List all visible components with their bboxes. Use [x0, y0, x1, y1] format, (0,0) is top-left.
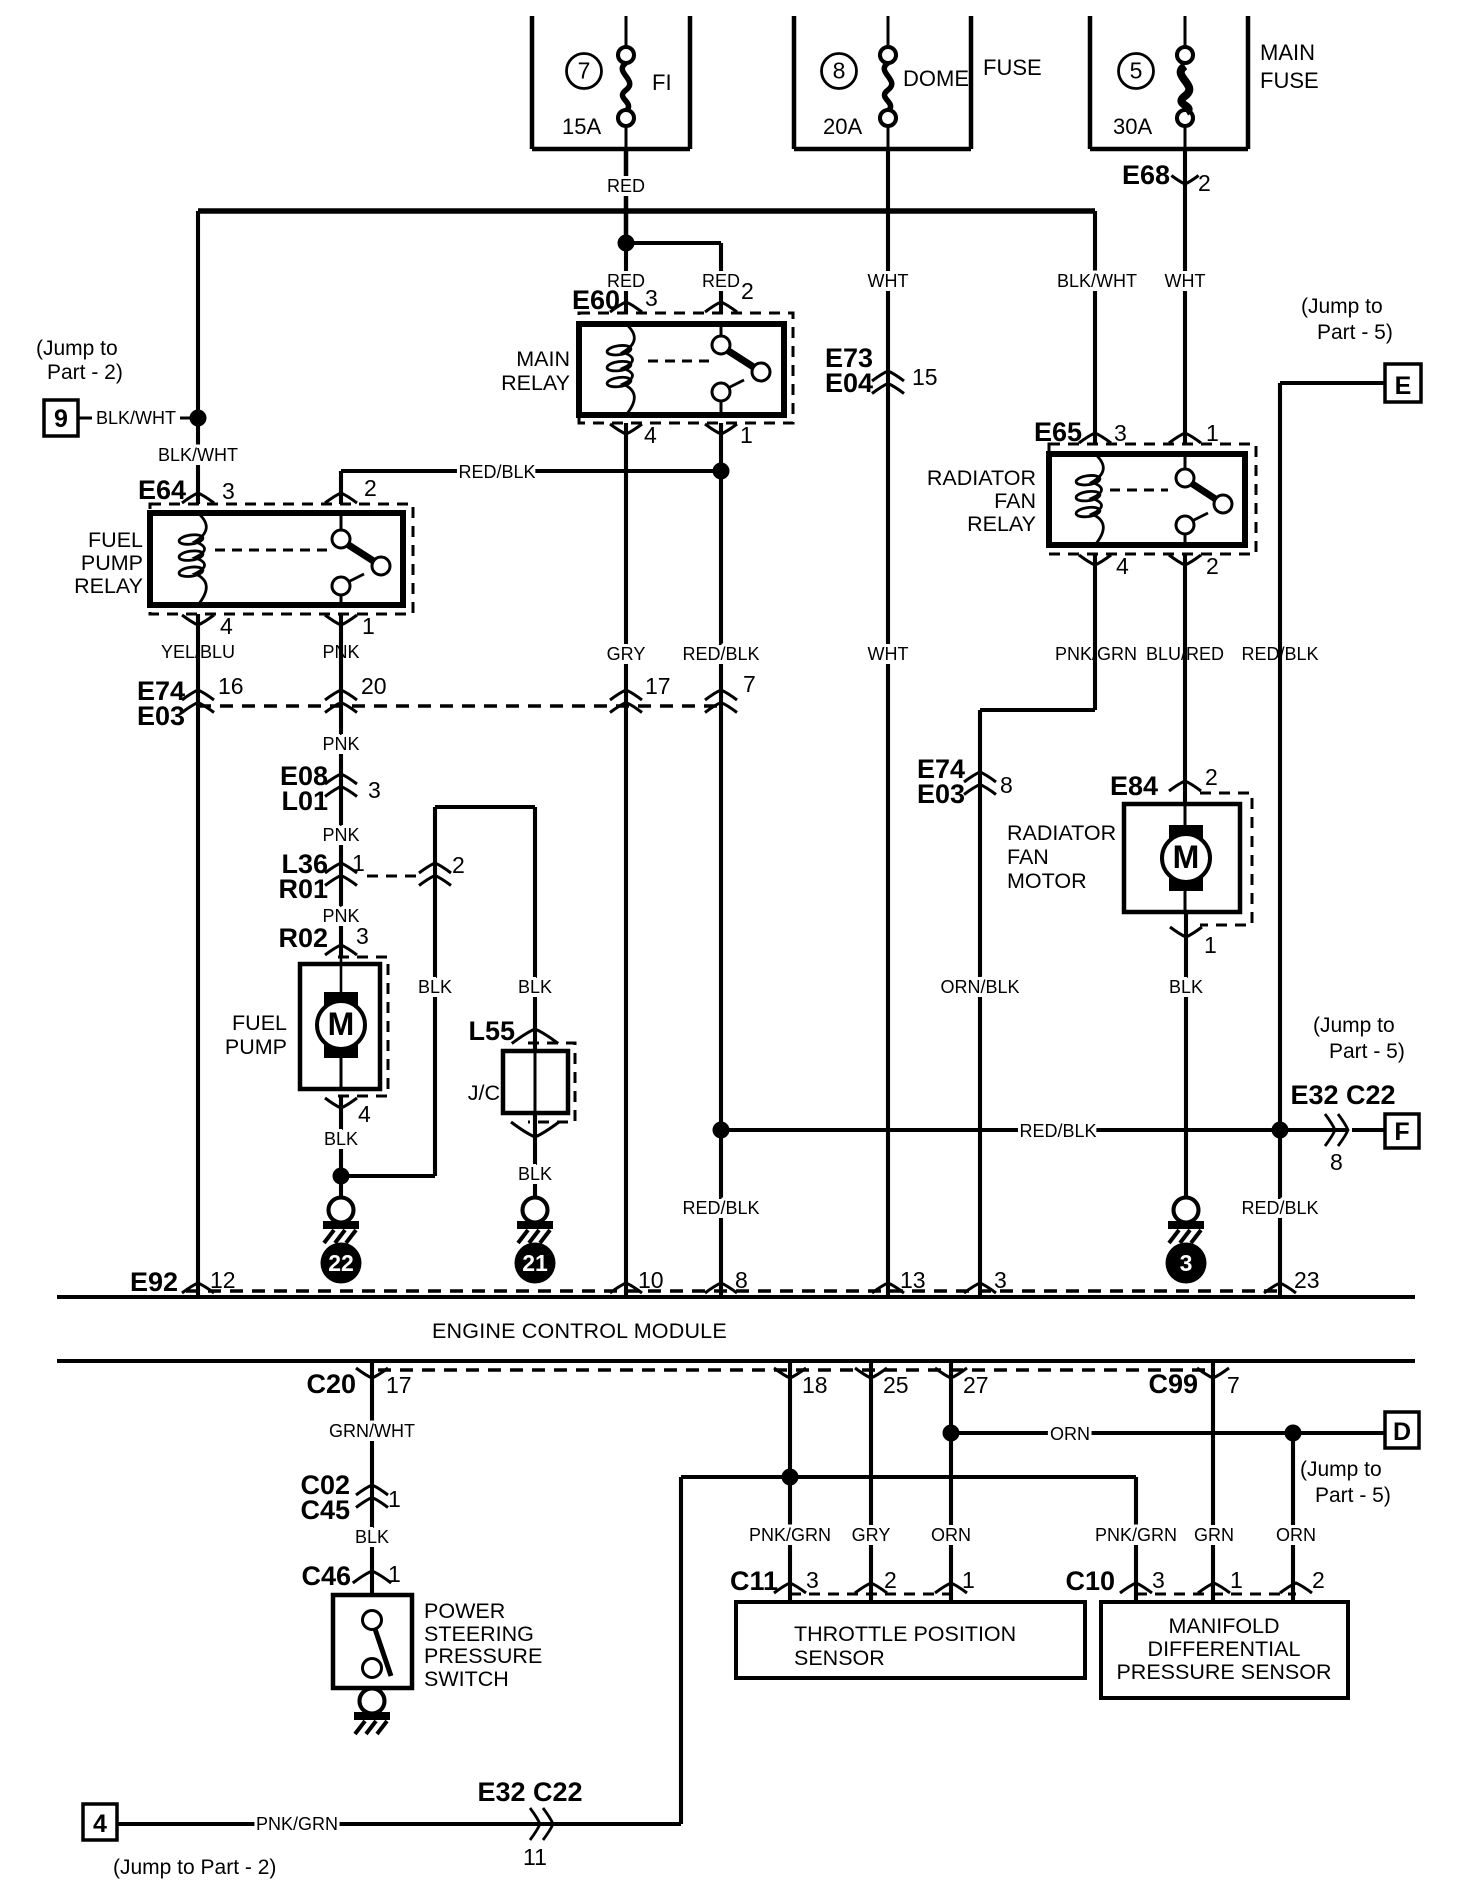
- svg-text:ENGINE CONTROL MODULE: ENGINE CONTROL MODULE: [432, 1319, 727, 1343]
- svg-text:L55: L55: [468, 1016, 515, 1046]
- svg-text:8: 8: [1330, 1149, 1343, 1175]
- svg-text:3: 3: [1114, 420, 1127, 446]
- svg-text:8: 8: [833, 58, 846, 84]
- svg-text:MAIN: MAIN: [516, 347, 570, 371]
- svg-text:POWER: POWER: [424, 1599, 505, 1623]
- svg-text:1: 1: [388, 1561, 401, 1587]
- svg-text:R01: R01: [278, 874, 328, 904]
- svg-text:C20: C20: [306, 1369, 356, 1399]
- svg-text:BLK/WHT: BLK/WHT: [96, 408, 176, 428]
- svg-text:D: D: [1393, 1418, 1411, 1446]
- svg-text:FI: FI: [652, 70, 672, 95]
- svg-text:MANIFOLD: MANIFOLD: [1168, 1614, 1279, 1638]
- svg-text:BLK: BLK: [418, 977, 452, 997]
- svg-text:11: 11: [523, 1844, 547, 1870]
- svg-text:1: 1: [362, 613, 375, 639]
- svg-text:2: 2: [364, 475, 377, 501]
- svg-text:13: 13: [900, 1267, 926, 1293]
- svg-text:12: 12: [210, 1267, 236, 1293]
- svg-text:MOTOR: MOTOR: [1007, 869, 1087, 893]
- svg-text:GRY: GRY: [852, 1525, 891, 1545]
- svg-text:FUEL: FUEL: [232, 1011, 287, 1035]
- svg-text:10: 10: [638, 1267, 664, 1293]
- svg-text:RED: RED: [607, 176, 645, 196]
- svg-text:18: 18: [802, 1372, 828, 1398]
- svg-text:9: 9: [54, 405, 68, 433]
- svg-text:2: 2: [884, 1567, 897, 1593]
- svg-text:1: 1: [1230, 1567, 1243, 1593]
- svg-text:RELAY: RELAY: [74, 574, 143, 598]
- svg-text:GRN: GRN: [1194, 1525, 1234, 1545]
- svg-text:ORN/BLK: ORN/BLK: [940, 977, 1019, 997]
- svg-text:E92: E92: [130, 1267, 178, 1297]
- svg-text:FUSE: FUSE: [1260, 68, 1319, 93]
- svg-text:RED/BLK: RED/BLK: [1241, 1198, 1318, 1218]
- svg-text:(Jump to: (Jump to: [36, 337, 118, 360]
- svg-text:E32 C22: E32 C22: [1290, 1080, 1395, 1110]
- svg-text:3: 3: [356, 923, 369, 949]
- svg-text:E65: E65: [1034, 417, 1082, 447]
- svg-text:RED/BLK: RED/BLK: [458, 462, 535, 482]
- svg-text:ORN: ORN: [931, 1525, 971, 1545]
- svg-text:MAIN: MAIN: [1260, 40, 1315, 65]
- svg-text:BLK/WHT: BLK/WHT: [158, 445, 238, 465]
- svg-text:1: 1: [1206, 420, 1219, 446]
- svg-text:BLK: BLK: [518, 1164, 552, 1184]
- svg-text:5: 5: [1130, 58, 1143, 84]
- svg-text:PRESSURE SENSOR: PRESSURE SENSOR: [1116, 1660, 1331, 1684]
- svg-text:L01: L01: [281, 786, 328, 816]
- svg-text:BLK/WHT: BLK/WHT: [1057, 271, 1137, 291]
- svg-text:1: 1: [962, 1567, 975, 1593]
- svg-text:15A: 15A: [562, 114, 601, 139]
- svg-text:BLK: BLK: [355, 1527, 389, 1547]
- svg-text:3: 3: [222, 478, 235, 504]
- svg-text:GRY: GRY: [607, 644, 646, 664]
- svg-text:23: 23: [1294, 1267, 1320, 1293]
- svg-text:27: 27: [963, 1372, 989, 1398]
- svg-text:7: 7: [578, 58, 591, 84]
- svg-text:C46: C46: [301, 1561, 351, 1591]
- svg-text:ORN: ORN: [1276, 1525, 1316, 1545]
- svg-text:21: 21: [522, 1250, 548, 1276]
- svg-text:Part - 2): Part - 2): [47, 361, 123, 384]
- svg-text:3: 3: [368, 777, 381, 803]
- svg-text:FUEL: FUEL: [88, 528, 143, 552]
- svg-text:2: 2: [1205, 764, 1218, 790]
- svg-text:DIFFERENTIAL: DIFFERENTIAL: [1148, 1637, 1301, 1661]
- svg-text:22: 22: [328, 1250, 354, 1276]
- svg-text:RED/BLK: RED/BLK: [682, 1198, 759, 1218]
- svg-text:PUMP: PUMP: [81, 551, 143, 575]
- svg-text:RELAY: RELAY: [501, 371, 570, 395]
- svg-text:30A: 30A: [1113, 114, 1152, 139]
- svg-text:C99: C99: [1148, 1369, 1198, 1399]
- svg-text:STEERING: STEERING: [424, 1622, 534, 1646]
- svg-text:2: 2: [741, 278, 754, 304]
- svg-text:BLK: BLK: [1169, 977, 1203, 997]
- svg-text:E03: E03: [917, 779, 965, 809]
- svg-text:M: M: [1173, 839, 1200, 875]
- svg-text:C10: C10: [1065, 1566, 1115, 1596]
- svg-text:RED/BLK: RED/BLK: [682, 644, 759, 664]
- svg-text:1: 1: [1204, 932, 1217, 958]
- svg-text:BLK: BLK: [324, 1129, 358, 1149]
- svg-text:J/C: J/C: [468, 1081, 500, 1105]
- svg-text:E04: E04: [825, 368, 873, 398]
- svg-text:1: 1: [388, 1486, 401, 1512]
- svg-text:(Jump to: (Jump to: [1313, 1014, 1395, 1037]
- svg-text:8: 8: [1000, 772, 1013, 798]
- svg-text:FAN: FAN: [994, 489, 1036, 513]
- svg-text:4: 4: [1116, 553, 1129, 579]
- svg-text:4: 4: [358, 1101, 371, 1127]
- svg-text:E32 C22: E32 C22: [477, 1777, 582, 1807]
- svg-text:WHT: WHT: [868, 271, 909, 291]
- svg-text:WHT: WHT: [1165, 271, 1206, 291]
- svg-text:17: 17: [645, 673, 671, 699]
- svg-text:E68: E68: [1122, 160, 1170, 190]
- svg-text:E: E: [1395, 372, 1412, 400]
- svg-text:C11: C11: [730, 1566, 778, 1596]
- svg-text:3: 3: [806, 1567, 819, 1593]
- svg-text:THROTTLE POSITION: THROTTLE POSITION: [794, 1622, 1016, 1646]
- svg-text:2: 2: [1312, 1567, 1325, 1593]
- svg-text:RED/BLK: RED/BLK: [1019, 1121, 1096, 1141]
- svg-text:(Jump to Part - 2): (Jump to Part - 2): [113, 1856, 276, 1879]
- svg-text:ORN: ORN: [1050, 1424, 1090, 1444]
- svg-text:BLK: BLK: [518, 977, 552, 997]
- svg-text:15: 15: [912, 364, 938, 390]
- svg-text:E84: E84: [1110, 771, 1158, 801]
- svg-text:Part - 5): Part - 5): [1315, 1484, 1391, 1507]
- svg-text:2: 2: [452, 852, 465, 878]
- svg-text:20: 20: [361, 673, 387, 699]
- svg-text:4: 4: [644, 422, 657, 448]
- svg-text:GRN/WHT: GRN/WHT: [329, 1421, 415, 1441]
- svg-text:RELAY: RELAY: [967, 512, 1036, 536]
- svg-text:4: 4: [93, 1810, 107, 1838]
- svg-text:PRESSURE: PRESSURE: [424, 1644, 542, 1668]
- svg-text:7: 7: [1227, 1372, 1240, 1398]
- svg-text:R02: R02: [278, 923, 328, 953]
- svg-text:PNK: PNK: [322, 906, 359, 926]
- svg-text:C45: C45: [300, 1495, 350, 1525]
- svg-text:SENSOR: SENSOR: [794, 1646, 885, 1670]
- svg-text:WHT: WHT: [868, 644, 909, 664]
- svg-text:8: 8: [735, 1267, 748, 1293]
- svg-text:F: F: [1394, 1118, 1409, 1146]
- svg-text:PNK/GRN: PNK/GRN: [1095, 1525, 1177, 1545]
- svg-text:PNK/GRN: PNK/GRN: [256, 1814, 338, 1834]
- svg-text:E03: E03: [137, 701, 185, 731]
- svg-text:FAN: FAN: [1007, 845, 1049, 869]
- svg-text:25: 25: [883, 1372, 909, 1398]
- svg-text:(Jump to: (Jump to: [1300, 1458, 1382, 1481]
- svg-text:17: 17: [386, 1372, 412, 1398]
- svg-text:Part - 5): Part - 5): [1329, 1040, 1405, 1063]
- svg-text:3: 3: [645, 285, 658, 311]
- svg-text:PNK: PNK: [322, 825, 359, 845]
- svg-text:SWITCH: SWITCH: [424, 1667, 509, 1691]
- svg-text:PUMP: PUMP: [225, 1035, 287, 1059]
- svg-text:1: 1: [740, 422, 753, 448]
- svg-text:RADIATOR: RADIATOR: [927, 466, 1036, 490]
- svg-text:PNK/GRN: PNK/GRN: [749, 1525, 831, 1545]
- svg-text:2: 2: [1198, 170, 1211, 196]
- svg-text:4: 4: [220, 613, 233, 639]
- svg-text:FUSE: FUSE: [983, 55, 1042, 80]
- svg-text:20A: 20A: [823, 114, 862, 139]
- svg-text:3: 3: [994, 1267, 1007, 1293]
- svg-text:PNK: PNK: [322, 734, 359, 754]
- svg-text:DOME: DOME: [903, 66, 969, 91]
- svg-text:M: M: [328, 1006, 355, 1042]
- svg-text:Part - 5): Part - 5): [1317, 321, 1393, 344]
- svg-text:7: 7: [743, 671, 756, 697]
- svg-text:2: 2: [1206, 553, 1219, 579]
- svg-text:RED: RED: [702, 271, 740, 291]
- svg-text:16: 16: [218, 673, 244, 699]
- svg-text:1: 1: [352, 850, 365, 876]
- svg-text:3: 3: [1180, 1250, 1193, 1276]
- svg-text:RADIATOR: RADIATOR: [1007, 821, 1116, 845]
- svg-text:3: 3: [1152, 1567, 1165, 1593]
- svg-text:(Jump to: (Jump to: [1301, 295, 1383, 318]
- svg-text:E64: E64: [138, 475, 186, 505]
